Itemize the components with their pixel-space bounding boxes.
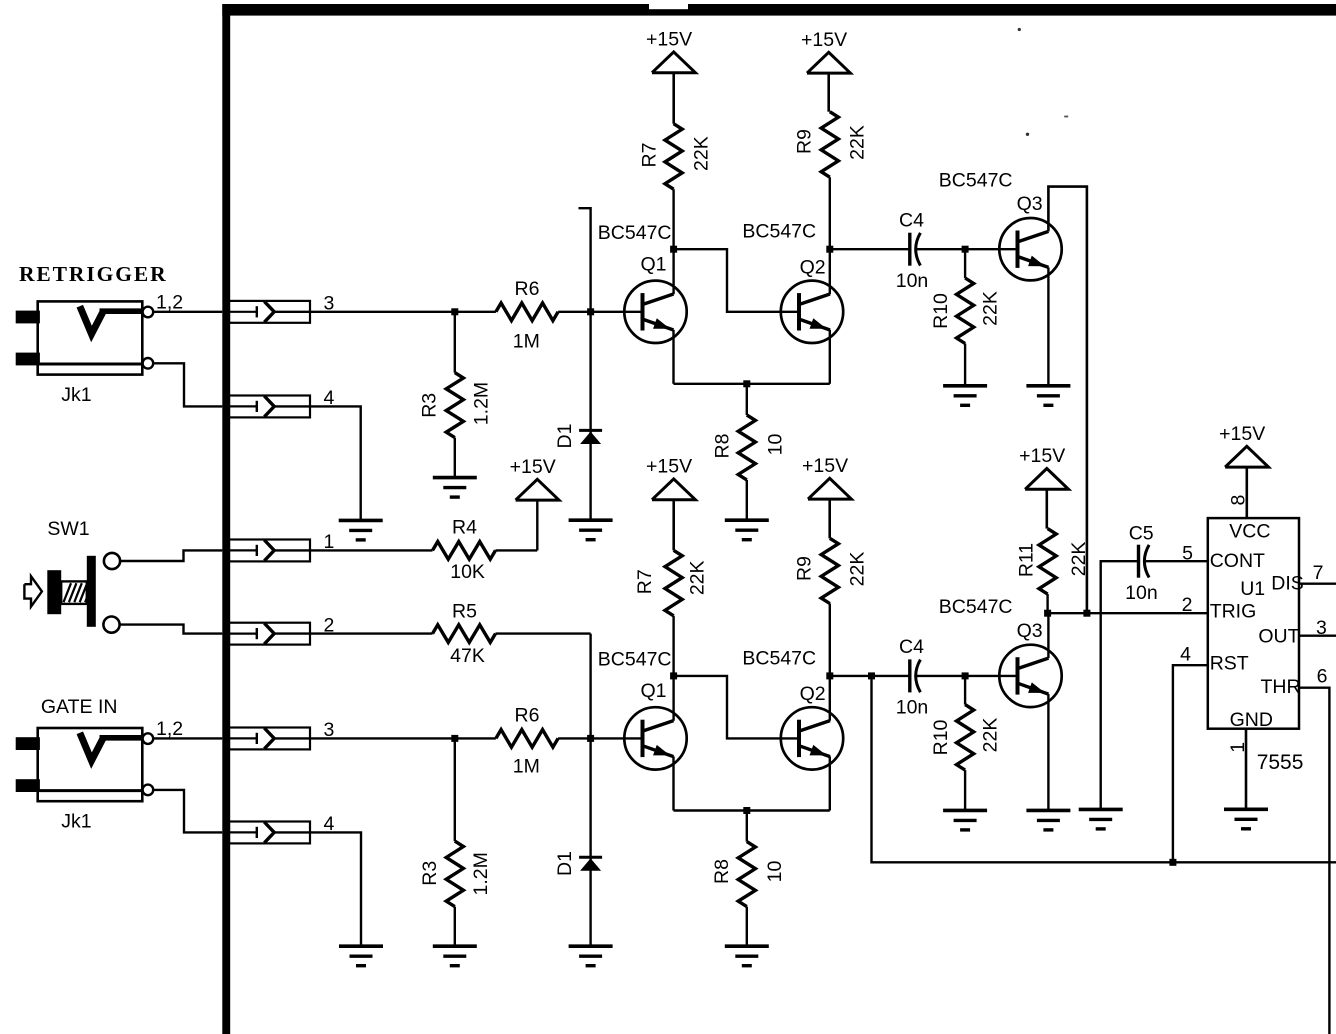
svg-text:Q2: Q2 <box>800 683 826 705</box>
wire Q3 collector to TRIG junction (bottom) <box>1047 613 1049 658</box>
junction R3 tap (top) <box>451 308 458 315</box>
svg-text:10n: 10n <box>896 270 929 292</box>
junction Q1 collector (top) <box>670 246 677 253</box>
svg-text:R7: R7 <box>634 569 656 594</box>
wire R7 to Q1 collector (top) <box>672 189 674 294</box>
connector jack Jk1 GATE IN <box>38 728 143 801</box>
ground R3 (top) <box>433 476 477 480</box>
capacitor C5 <box>1137 545 1140 578</box>
svg-text:Jk1: Jk1 <box>61 810 91 832</box>
svg-text:R10: R10 <box>930 293 952 329</box>
connector pin 3 (top) <box>229 301 310 323</box>
resistor R10 (bottom) <box>964 676 966 705</box>
resistor R4 <box>433 542 496 560</box>
ground C5 <box>1079 808 1123 812</box>
junction Q2 collector (bottom) <box>826 672 833 679</box>
wire net4-bottom to ground <box>310 832 361 946</box>
junction R8 tap (bottom) <box>743 807 750 814</box>
svg-text:Q1: Q1 <box>641 254 667 276</box>
switch SW1 <box>24 576 42 606</box>
svg-text:R4: R4 <box>452 517 477 539</box>
svg-text:22K: 22K <box>847 552 869 587</box>
svg-text:BC547C: BC547C <box>598 649 672 671</box>
junction R8 tap (top) <box>743 380 750 387</box>
wire Q2 collector to C4 (bottom) <box>830 675 910 677</box>
svg-text:10n: 10n <box>1125 582 1158 604</box>
wire R11 to TRIG junction <box>1046 594 1048 613</box>
wire R6 to Q1 base (bottom) <box>558 737 642 739</box>
wire C5 to CONT pin <box>1145 560 1208 562</box>
svg-text:C4: C4 <box>899 636 924 658</box>
resistor R5 <box>433 625 496 643</box>
wire THR pin 6 <box>1299 688 1329 1034</box>
svg-text:TRIG: TRIG <box>1210 601 1257 623</box>
connector pin 1 <box>229 540 310 562</box>
transistor Q1 (top) BC547C <box>624 281 686 343</box>
wire jack sleeve to bus (net 4 top) <box>153 363 222 406</box>
wire jack sleeve to bus (net 4 bottom) <box>153 790 222 833</box>
svg-text:Q1: Q1 <box>641 680 667 702</box>
diode D1 (top) <box>579 429 602 432</box>
ground Q3 (bottom) <box>1026 809 1070 813</box>
resistor R7 (top) <box>665 124 682 190</box>
svg-text:1.2M: 1.2M <box>470 852 492 895</box>
wire net4-top to ground <box>310 406 361 520</box>
svg-text:5: 5 <box>1182 542 1193 564</box>
transistor Q3 (top) BC547C <box>999 218 1061 280</box>
svg-text:Jk1: Jk1 <box>61 384 91 406</box>
svg-text:R3: R3 <box>419 861 441 886</box>
svg-text:47K: 47K <box>450 645 485 667</box>
wire RST pin 4 <box>1173 665 1208 862</box>
svg-text:GND: GND <box>1230 709 1273 731</box>
wire Q1 emitter (bottom) <box>672 756 674 810</box>
transistor Q3 (bottom) BC547C <box>999 645 1061 707</box>
svg-text:+15V: +15V <box>510 456 556 478</box>
svg-text:OUT: OUT <box>1258 625 1299 647</box>
junction RST on feedback line <box>1169 859 1176 866</box>
svg-text:7555: 7555 <box>1257 751 1304 774</box>
wire SW1 top contact to bus (net 1) <box>120 550 222 561</box>
wire SW1 bottom contact to bus (net 2) <box>120 625 223 634</box>
wire stub and D1 line (top) <box>579 208 591 520</box>
svg-text:RETRIGGER: RETRIGGER <box>19 262 168 286</box>
svg-text:1,2: 1,2 <box>156 292 183 314</box>
svg-text:R10: R10 <box>930 719 952 755</box>
connector pin 4 (bottom) <box>229 822 310 844</box>
svg-text:VCC: VCC <box>1229 521 1270 543</box>
svg-text:10: 10 <box>764 861 786 883</box>
resistor R8 (bottom) <box>746 811 748 842</box>
junction R3 tap (bottom) <box>451 735 458 742</box>
wire jack tip to bus (net 3 top) <box>153 311 222 313</box>
svg-text:Q2: Q2 <box>800 256 826 278</box>
svg-text:6: 6 <box>1317 666 1328 688</box>
paper speck <box>1018 28 1021 31</box>
wire D1 line (bottom) <box>589 634 591 947</box>
svg-text:22K: 22K <box>980 291 1002 326</box>
ground R3 (bottom) <box>433 944 477 948</box>
ground R8 (bottom) <box>725 944 769 948</box>
wire DIS pin 7 <box>1299 583 1336 585</box>
wire OUT pin 3 <box>1299 635 1336 637</box>
wire R6 to Q1 base (top) <box>558 311 642 313</box>
connector pin 3 (bottom) <box>229 728 310 750</box>
svg-text:Q3: Q3 <box>1017 620 1043 642</box>
svg-text:+15V: +15V <box>1219 423 1265 445</box>
connector pin 2 <box>229 623 310 645</box>
junction R11/Q3 collector <box>1044 610 1051 617</box>
svg-text:22K: 22K <box>980 718 1002 753</box>
wire R9 to Q2 collector (bottom) <box>829 604 831 721</box>
ground R8 (top) <box>725 518 769 522</box>
ground net4 (bottom) <box>339 944 383 948</box>
svg-text:+15V: +15V <box>646 29 692 51</box>
junction Q2 collector (top) <box>826 246 833 253</box>
wire Q2 collector to C4 (top) <box>830 248 910 250</box>
svg-text:+15V: +15V <box>801 29 847 51</box>
resistor R9 (top) <box>821 112 838 178</box>
svg-text:R3: R3 <box>418 393 440 418</box>
wire net3-bottom to R6 <box>310 737 496 739</box>
transistor Q2 (bottom) BC547C <box>781 707 843 769</box>
wire feedback to RST line <box>872 676 1336 862</box>
svg-text:10: 10 <box>765 434 787 456</box>
wire Q1 collector to Q2 base (bottom) <box>674 676 799 739</box>
capacitor C4 (bottom) <box>908 659 911 692</box>
junction R10 tap (top) <box>962 246 969 253</box>
svg-text:10K: 10K <box>450 561 485 583</box>
svg-text:R9: R9 <box>794 556 816 581</box>
svg-text:D1: D1 <box>554 851 576 876</box>
resistor R3 (bottom) <box>454 738 456 841</box>
resistor R6 (top) <box>496 303 558 321</box>
IC U1 7555 timer <box>1208 518 1299 729</box>
svg-text:2: 2 <box>1182 594 1193 616</box>
svg-text:22K: 22K <box>691 136 713 171</box>
ground net4 (top) <box>339 519 383 523</box>
svg-text:1: 1 <box>1227 742 1249 753</box>
resistor R9 (bottom) <box>821 538 838 603</box>
diode D1 (bottom) <box>579 856 602 859</box>
wire Q1 emitter (top) <box>672 330 674 384</box>
junction D1 line crossing (bottom) <box>587 735 594 742</box>
junction feedback tap (bottom) <box>868 672 875 679</box>
svg-text:THR: THR <box>1261 676 1301 698</box>
wire R7 to Q1 collector (bottom) <box>672 616 674 721</box>
wire R5 to D1 line (bottom circuit) <box>496 632 591 634</box>
paper speck <box>1064 116 1068 118</box>
wire Q2 emitter (bottom) <box>829 756 831 810</box>
transistor Q2 (top) BC547C <box>781 281 843 343</box>
svg-text:GATE IN: GATE IN <box>41 696 118 718</box>
wire Q1 collector to Q2 base (top) <box>674 249 799 312</box>
svg-text:D1: D1 <box>554 424 576 449</box>
junction R10 tap (bottom) <box>962 672 969 679</box>
svg-text:R8: R8 <box>711 434 733 459</box>
svg-text:RST: RST <box>1210 653 1249 675</box>
wire C4 to Q3 base (top) <box>916 248 1017 250</box>
resistor R8 (top) <box>746 384 748 415</box>
resistor R7 (bottom) <box>665 550 682 616</box>
wire GND pin 1 <box>1245 729 1248 810</box>
svg-text:22K: 22K <box>1068 542 1090 577</box>
svg-text:BC547C: BC547C <box>939 170 1013 192</box>
svg-text:7: 7 <box>1313 562 1324 584</box>
svg-text:R6: R6 <box>515 278 540 300</box>
capacitor C4 (top) <box>908 233 911 266</box>
junction Q1 collector (bottom) <box>670 672 677 679</box>
svg-text:C4: C4 <box>899 210 924 232</box>
svg-text:R8: R8 <box>711 859 733 884</box>
resistor R11 <box>1039 529 1056 595</box>
svg-text:U1: U1 <box>1240 578 1265 600</box>
connector jack Jk1 RETRIGGER <box>38 301 143 374</box>
svg-text:R9: R9 <box>794 129 816 154</box>
ground Q3 (top) <box>1026 384 1070 388</box>
svg-text:1M: 1M <box>513 756 540 778</box>
svg-text:R7: R7 <box>639 143 661 168</box>
wire C4 to Q3 base (bottom) <box>916 675 1017 677</box>
svg-text:Q3: Q3 <box>1017 193 1043 215</box>
svg-text:1.2M: 1.2M <box>471 382 493 425</box>
svg-text:R5: R5 <box>452 601 477 623</box>
svg-text:+15V: +15V <box>1019 445 1065 467</box>
wire jack tip to bus (net 3 bottom) <box>153 737 222 739</box>
wire common emitter line (top) <box>674 383 830 385</box>
svg-text:22K: 22K <box>686 560 708 595</box>
resistor R10 (top) <box>964 249 966 278</box>
svg-text:CONT: CONT <box>1210 550 1265 572</box>
svg-text:+15V: +15V <box>802 455 848 477</box>
svg-text:BC547C: BC547C <box>742 221 816 243</box>
svg-text:1M: 1M <box>513 331 540 353</box>
paper speck <box>1026 133 1029 136</box>
svg-text:C5: C5 <box>1129 522 1154 544</box>
svg-text:22K: 22K <box>847 125 869 160</box>
ground U1 <box>1224 807 1268 811</box>
wire net3-top to R6 <box>310 311 496 313</box>
resistor R6 (bottom) <box>496 730 558 748</box>
junction top-Q3 collector on TRIG <box>1083 610 1090 617</box>
wire Q3 emitter to ground (top) <box>1047 267 1049 385</box>
svg-text:+15V: +15V <box>646 456 692 478</box>
wire net2 to R5 <box>310 632 433 634</box>
svg-text:R11: R11 <box>1015 543 1037 577</box>
svg-text:8: 8 <box>1228 495 1250 506</box>
transistor Q1 (bottom) BC547C <box>624 707 686 769</box>
svg-text:SW1: SW1 <box>47 518 89 540</box>
junction D1 line crossing (top) <box>587 308 594 315</box>
wire R4 to +15V <box>496 549 538 551</box>
wire CONT net left segment to ground <box>1101 561 1139 809</box>
ground D1 (bottom) <box>569 944 613 948</box>
ground R10 (top) <box>943 384 987 388</box>
wire net1 to R4 <box>310 549 433 551</box>
connector pin 4 (top) <box>229 396 310 418</box>
wire Q3 collector to TRIG (top) <box>1048 187 1087 614</box>
wire Q2 emitter (top) <box>829 330 831 384</box>
svg-text:DIS: DIS <box>1271 573 1304 595</box>
ground D1 (top) <box>569 518 613 522</box>
wire TRIG net <box>1048 612 1208 614</box>
svg-text:R6: R6 <box>515 705 540 727</box>
wire R9 to Q2 collector (top) <box>829 177 831 294</box>
svg-text:10n: 10n <box>896 696 929 718</box>
wire common emitter line (bottom) <box>674 809 830 811</box>
wire Q3 emitter to ground (bottom) <box>1047 694 1049 810</box>
svg-text:BC547C: BC547C <box>598 222 672 244</box>
svg-text:BC547C: BC547C <box>742 647 816 669</box>
wire VCC pin 8 <box>1246 467 1249 518</box>
resistor R3 (top) <box>454 312 456 373</box>
svg-text:4: 4 <box>1180 643 1191 665</box>
svg-text:1,2: 1,2 <box>156 718 183 740</box>
svg-text:BC547C: BC547C <box>939 596 1013 618</box>
ground R10 (bottom) <box>943 809 987 813</box>
